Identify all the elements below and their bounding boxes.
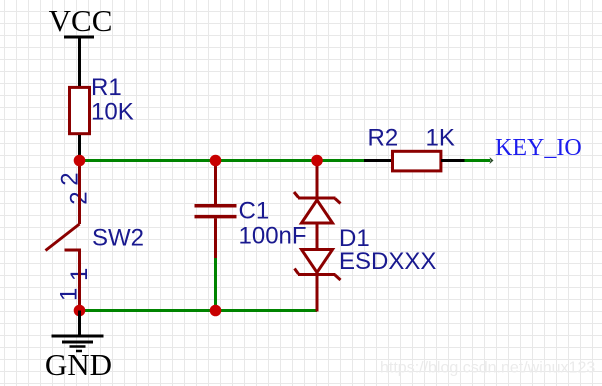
- C1 bottom plate: [195, 215, 237, 219]
- svg-text:SW2: SW2: [92, 225, 144, 252]
- node A junction: [74, 155, 86, 167]
- D1 middle wire: [316, 223, 319, 249]
- D1 top bar right hook: [335, 199, 341, 204]
- node B2 junction (C1 bottom): [210, 305, 222, 317]
- D1 bottom pin wire: [316, 276, 319, 312]
- SW2 pin 2 wire: [78, 161, 81, 225]
- D1 top cathode bar: [298, 197, 336, 200]
- C1 top pin wire: [214, 161, 217, 205]
- svg-text:https://blog.csdn.net/winux123: https://blog.csdn.net/winux123: [380, 360, 595, 377]
- svg-text:1K: 1K: [426, 125, 455, 152]
- VCC power bar: [64, 36, 94, 39]
- D1 bottom anode bar: [298, 273, 336, 276]
- svg-text:KEY_IO: KEY_IO: [495, 135, 582, 161]
- node GND junction: [74, 305, 86, 317]
- wire R2 to KEY_IO port: [465, 159, 491, 162]
- svg-text:VCC: VCC: [49, 3, 113, 38]
- wire bottom rail (GND node to D1): [80, 309, 318, 312]
- tvs diode D1: [294, 161, 341, 312]
- D1 upper triangle: [302, 200, 333, 223]
- D1 bottom bar right hook: [335, 275, 341, 280]
- R2 right pin wire: [441, 159, 466, 162]
- svg-text:GND: GND: [45, 347, 112, 382]
- R2 left pin wire: [364, 159, 392, 162]
- wire node to ground symbol: [78, 311, 81, 337]
- node B junction (C1 top): [210, 155, 222, 167]
- capacitor C1: [195, 161, 237, 259]
- wire top rail (node A to R2): [80, 159, 365, 162]
- D1 lower triangle: [302, 250, 333, 273]
- D1 bottom bar left hook: [295, 269, 299, 275]
- SW2 contact bar: [65, 249, 82, 252]
- wire R1 to node A: [78, 135, 81, 161]
- switch SW2: [46, 161, 145, 311]
- wire VCC bar to R1: [78, 37, 81, 87]
- wire C1 to bottom rail: [214, 258, 217, 311]
- wire end arrow: [490, 157, 494, 164]
- svg-text:R1: R1: [91, 74, 122, 101]
- D1 top pin wire: [316, 161, 319, 198]
- SW2 pin 1 wire: [78, 250, 81, 311]
- R2 body: [393, 151, 441, 171]
- C1 bottom pin wire: [214, 218, 217, 258]
- resistor R1: [70, 87, 90, 133]
- svg-text:100nF: 100nF: [239, 223, 307, 250]
- C1 top plate: [195, 204, 237, 208]
- svg-text:R2: R2: [368, 125, 399, 152]
- svg-text:C1: C1: [239, 198, 270, 225]
- node C junction (D1 top): [311, 155, 323, 167]
- ground symbol: [52, 336, 104, 351]
- svg-text:ESDXXX: ESDXXX: [339, 248, 436, 275]
- SW2 blade: [46, 224, 80, 251]
- D1 top bar left hook: [294, 192, 299, 198]
- svg-text:10K: 10K: [91, 99, 134, 126]
- resistor R2: [364, 151, 466, 171]
